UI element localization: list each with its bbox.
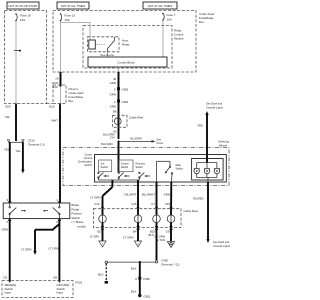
svg-text:BLK: BLK xyxy=(131,290,137,294)
brake switch right contact xyxy=(53,203,60,219)
svg-text:E8: E8 xyxy=(53,276,57,280)
wire resume drop xyxy=(137,180,139,215)
set press arrow xyxy=(103,175,109,177)
cable reel contact ring 4 xyxy=(167,215,175,223)
svg-text:pedal): pedal) xyxy=(78,225,86,229)
wire ring1 down xyxy=(102,222,104,241)
svg-text:Switch: Switch xyxy=(176,166,184,170)
wire dashed BLK to other units xyxy=(105,264,108,284)
pin marks brake box top xyxy=(8,201,61,203)
label Cruise Control Combination Switch xyxy=(78,153,93,168)
pin mark PCM E8 xyxy=(58,281,61,283)
brake switch press arrow right xyxy=(43,210,48,212)
label Steering Wheel xyxy=(218,140,229,148)
brake pedal position switch box xyxy=(3,203,70,219)
main switch S4 xyxy=(157,161,184,174)
svg-text:YEL/WHT: YEL/WHT xyxy=(124,193,137,197)
label Brake Pedal Position Switch xyxy=(72,203,86,229)
wire ring2 down xyxy=(137,222,139,241)
svg-text:Relay: Relay xyxy=(122,43,130,47)
wire dash lights feed with up arrow xyxy=(205,111,208,163)
brake switch left contact xyxy=(9,203,16,219)
svg-text:Resume: Resume xyxy=(136,162,146,166)
svg-text:B10: B10 xyxy=(49,104,55,108)
wire YEL left branch xyxy=(9,142,11,203)
svg-text:Horns: Horns xyxy=(157,141,165,145)
wire BLK ground run xyxy=(139,262,141,294)
label cruise switch input xyxy=(57,283,70,295)
label Under-hood Fuse/Relay Box xyxy=(199,12,215,24)
svg-text:GRN: GRN xyxy=(110,93,116,97)
header HOT AT ALL TIMES left xyxy=(57,2,89,9)
svg-text:Cancel: Cancel xyxy=(121,162,129,166)
label See Dash and Console Lights bottom xyxy=(213,240,231,248)
svg-text:C7: C7 xyxy=(151,202,155,206)
label brake switch input xyxy=(5,283,17,295)
wire YEL down xyxy=(15,105,17,142)
wire ring4 down xyxy=(170,222,172,241)
wire fuse13 feed between boxes xyxy=(60,72,62,85)
control block U1 xyxy=(88,57,167,67)
numbered triangle 8 under G9 xyxy=(167,242,174,248)
svg-text:C481: C481 xyxy=(122,100,129,104)
svg-text:N29: N29 xyxy=(5,104,11,108)
svg-text:LT GRN: LT GRN xyxy=(21,248,31,252)
svg-text:C12: C12 xyxy=(94,202,100,206)
svg-text:B2: B2 xyxy=(97,230,101,234)
brake switch press arrow left xyxy=(21,210,26,212)
left fuse box dashed enclosure xyxy=(5,11,47,104)
driver's under-dash fuse/relay box xyxy=(53,85,66,104)
cable reel lower dashed box xyxy=(93,209,181,228)
svg-text:Main: Main xyxy=(176,163,182,167)
svg-text:C8: C8 xyxy=(3,276,7,280)
label Driver's Under-dash Fuse/Relay Box xyxy=(69,87,84,103)
common bus wire xyxy=(98,179,139,181)
svg-text:GRN: GRN xyxy=(164,193,170,197)
pin marks brake box bottom xyxy=(8,219,61,221)
numbered triangle 7 under B2 xyxy=(99,241,106,247)
svg-text:YEL: YEL xyxy=(16,149,22,153)
label Horn Relay xyxy=(122,39,130,47)
pin mark terminal 29 xyxy=(59,72,62,74)
svg-text:Control Block: Control Block xyxy=(117,61,135,65)
svg-text:BLU/GRN: BLU/GRN xyxy=(101,142,112,146)
svg-text:Wheel: Wheel xyxy=(219,144,228,148)
svg-text:LT GRN: LT GRN xyxy=(90,195,100,199)
svg-text:C405: C405 xyxy=(161,259,168,263)
lamp L2 xyxy=(204,163,210,174)
wire B15 feed xyxy=(156,161,158,182)
wire cancel feed down xyxy=(118,141,120,172)
fuse F13 xyxy=(60,13,76,22)
svg-text:Switch: Switch xyxy=(84,163,92,167)
svg-text:See Horns: See Horns xyxy=(100,53,114,57)
svg-text:GRN: GRN xyxy=(110,81,116,85)
lamp top bus xyxy=(197,162,217,164)
svg-text:LT GRN: LT GRN xyxy=(90,235,99,239)
wire fuse13 branch to horn relay coil xyxy=(61,23,91,41)
connector D10 xyxy=(52,85,62,89)
svg-text:BLK: BLK xyxy=(149,233,155,237)
svg-text:Module: Module xyxy=(174,37,184,41)
set switch S1 xyxy=(98,160,112,180)
svg-text:(Terminals 7-12): (Terminals 7-12) xyxy=(161,263,180,267)
node J8 wire down from control block xyxy=(118,72,120,139)
label See Horns xyxy=(157,138,165,145)
svg-text:Box: Box xyxy=(69,99,75,103)
fuse F7 xyxy=(162,13,176,21)
node horn junction xyxy=(118,140,120,142)
svg-text:YEL: YEL xyxy=(5,115,11,119)
pin mark terminal B10 xyxy=(59,104,62,106)
cable reel contact ring 3 xyxy=(153,215,161,223)
svg-text:Input: Input xyxy=(57,291,64,295)
numbered triangle 4 under B4 xyxy=(134,241,141,247)
svg-text:Cable Reel: Cable Reel xyxy=(184,209,199,213)
connector C981 pin 5 xyxy=(114,87,129,91)
cable reel contact ring 2 xyxy=(134,215,142,223)
svg-text:BLU/GRN: BLU/GRN xyxy=(131,136,142,140)
svg-text:B6: B6 xyxy=(113,110,117,114)
svg-text:BLK: BLK xyxy=(98,273,104,277)
relay control module dashed box xyxy=(83,26,172,69)
svg-text:See: See xyxy=(157,138,162,142)
cruise control combination switch box xyxy=(95,155,227,183)
wire control block out xyxy=(118,67,120,72)
svg-text:YEL: YEL xyxy=(4,148,10,152)
svg-text:See Dash and: See Dash and xyxy=(206,102,223,106)
svg-text:B4: B4 xyxy=(133,230,137,234)
svg-text:HOT AT ALL TIMES: HOT AT ALL TIMES xyxy=(61,4,86,8)
terminal N29 xyxy=(5,104,17,109)
header HOT AT ALL TIMES right xyxy=(143,2,177,9)
connector C405 bar xyxy=(105,259,179,267)
svg-text:Switch: Switch xyxy=(121,165,129,169)
svg-text:Box: Box xyxy=(199,20,205,24)
lamp L1 xyxy=(194,163,200,174)
cancel press arrow xyxy=(124,175,130,177)
ground G501 xyxy=(138,294,151,299)
svg-text:(Terminals 1-3): (Terminals 1-3) xyxy=(28,143,45,147)
svg-text:G501: G501 xyxy=(144,295,151,299)
splice C310 xyxy=(7,139,44,147)
splice tap on fuse18 wire xyxy=(14,50,21,52)
svg-text:Control: Control xyxy=(84,156,93,160)
svg-text:29: 29 xyxy=(55,77,59,81)
svg-text:HOT AT ALL TIMES: HOT AT ALL TIMES xyxy=(148,4,173,8)
wire YEL/RED down with arrow xyxy=(206,182,209,243)
svg-text:G9: G9 xyxy=(166,230,170,234)
wire YEL right branch with arrow xyxy=(21,142,24,173)
wire inside under-dash box xyxy=(60,87,62,104)
svg-text:C582: C582 xyxy=(143,277,150,281)
svg-text:Console Lights: Console Lights xyxy=(206,106,224,110)
svg-text:BLK: BLK xyxy=(131,267,137,271)
wire fuse7 down to control block xyxy=(162,21,164,57)
resume switch S3 xyxy=(136,162,146,181)
wire to horns arrow xyxy=(119,140,156,143)
horn relay RL1 xyxy=(88,37,120,52)
cable reel symbol xyxy=(114,118,121,125)
wire WHT long down xyxy=(59,104,61,204)
svg-text:BLU/WHT: BLU/WHT xyxy=(142,193,155,197)
label LT GRN & TAN under G9 xyxy=(155,235,165,243)
svg-text:PCM: PCM xyxy=(76,281,83,285)
svg-text:YEL/RED: YEL/RED xyxy=(193,197,204,201)
svg-text:Cruise: Cruise xyxy=(85,153,93,157)
connector C481 pin 4 xyxy=(114,100,129,104)
bridge dash bottom xyxy=(47,103,54,105)
svg-text:HOT IN ON OR START: HOT IN ON OR START xyxy=(8,4,37,8)
wire fuse18 down inside box xyxy=(15,21,17,103)
pin mark PCM C8 xyxy=(8,281,11,283)
svg-text:GRN: GRN xyxy=(2,228,8,232)
svg-text:Switch: Switch xyxy=(136,165,144,169)
svg-text:GRN: GRN xyxy=(110,105,116,109)
svg-text:Input: Input xyxy=(5,291,12,295)
wire G9 feed xyxy=(170,174,173,182)
cable reel contact ring 1 xyxy=(99,215,107,223)
svg-text:RED: RED xyxy=(198,124,204,128)
wire relay out stub xyxy=(107,52,109,57)
cable reel upper dashed box xyxy=(113,115,128,127)
svg-text:WHT: WHT xyxy=(51,119,58,123)
svg-text:D10: D10 xyxy=(52,85,58,89)
cable reel pin marks xyxy=(101,207,173,229)
svg-text:LT GRN: LT GRN xyxy=(123,236,133,240)
svg-text:Switch: Switch xyxy=(101,165,109,169)
PCM dashed box xyxy=(2,281,73,298)
label See Dash and Console Lights top xyxy=(206,102,224,110)
lamp L3 xyxy=(214,163,220,174)
svg-text:Cable Reel: Cable Reel xyxy=(129,116,144,120)
fuse F18 xyxy=(15,13,31,22)
label Relay Control Module xyxy=(174,29,184,41)
header HOT IN ON OR START xyxy=(7,2,39,9)
svg-text:Combination: Combination xyxy=(78,160,93,164)
svg-text:Console Lights: Console Lights xyxy=(213,244,231,248)
connector C582 pin 8 xyxy=(135,277,150,281)
resume press arrow xyxy=(144,175,150,177)
illumination lamps box xyxy=(192,159,224,181)
svg-text:C14: C14 xyxy=(110,135,115,139)
svg-text:C310: C310 xyxy=(28,139,35,143)
lamp bottom bus xyxy=(197,174,217,182)
svg-text:See Dash and: See Dash and xyxy=(213,240,230,244)
wire brake out right to PCM xyxy=(58,219,60,281)
svg-text:15A: 15A xyxy=(65,18,70,22)
wire fuse13 down inside box xyxy=(60,21,62,72)
svg-text:15A: 15A xyxy=(20,18,25,22)
svg-text:C15: C15 xyxy=(131,202,137,206)
svg-text:Set: Set xyxy=(101,162,105,166)
wire common drop xyxy=(103,180,113,215)
svg-text:15A: 15A xyxy=(167,17,172,21)
under-hood fuse/relay box dashed enclosure xyxy=(53,11,196,73)
wire branch diagonal to arrow xyxy=(33,224,59,255)
wire ring3 down xyxy=(156,222,158,260)
wire brake out left to PCM xyxy=(9,219,11,281)
pin mark terminal J8 xyxy=(117,72,120,74)
svg-text:& TAN: & TAN xyxy=(157,238,165,242)
cancel switch S2 xyxy=(118,160,133,180)
svg-text:C981: C981 xyxy=(122,88,129,92)
svg-text:LT GRN: LT GRN xyxy=(49,247,59,251)
svg-text:C19: C19 xyxy=(165,202,171,206)
steering wheel boundary dash-dot box xyxy=(63,148,229,186)
